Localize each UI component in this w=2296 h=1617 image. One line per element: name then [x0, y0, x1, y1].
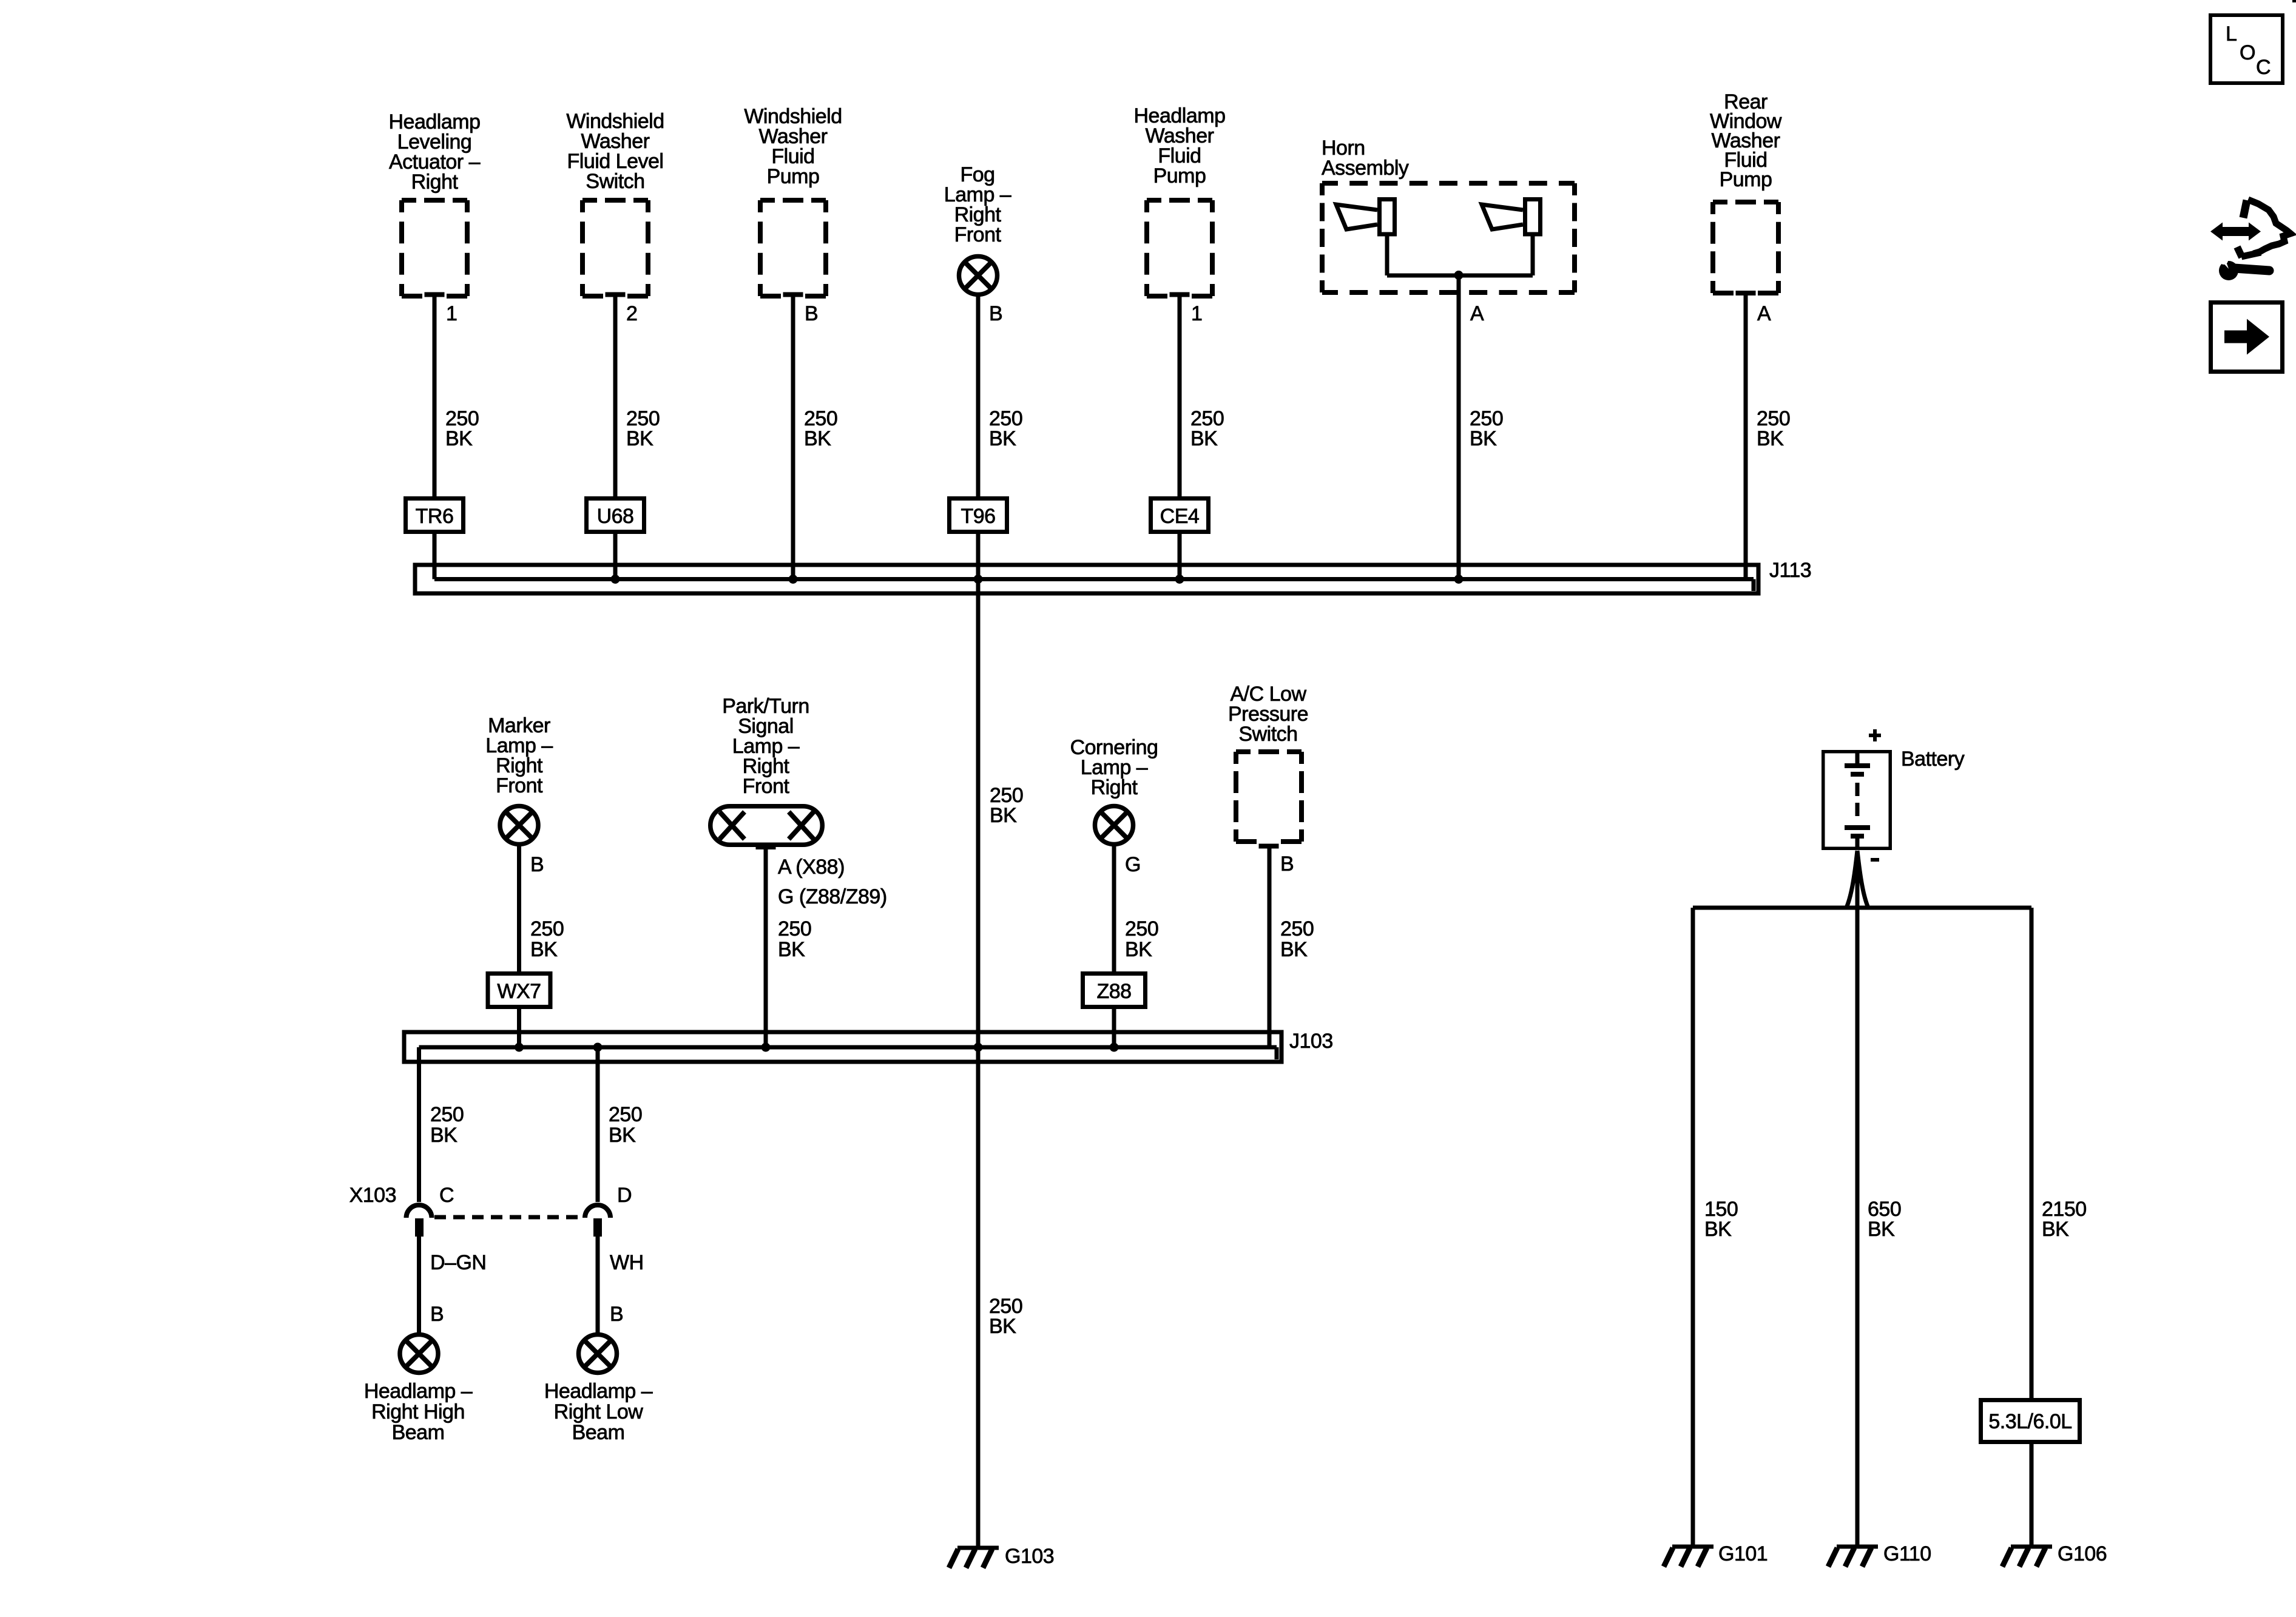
svg-text:Right: Right — [411, 170, 459, 194]
svg-text:J113: J113 — [1769, 559, 1811, 582]
wire from TR6 into splice pack J113 — [433, 534, 437, 579]
svg-text:BK: BK — [778, 938, 805, 961]
wire from right horn to junction — [1459, 236, 1533, 275]
wire label 250 BK — [430, 1103, 464, 1147]
wire label 250 BK on main wire above J103 — [990, 784, 1023, 827]
wire label 250 BK — [609, 1103, 642, 1147]
junction dot J113 - U68 wire — [611, 575, 620, 584]
svg-text:G110: G110 — [1883, 1542, 1931, 1565]
horn symbol right — [1482, 200, 1541, 235]
svg-text:A: A — [1757, 302, 1771, 325]
wire 250 BK from fluid level switch to U68 — [613, 297, 618, 496]
svg-text:D: D — [617, 1184, 632, 1207]
svg-text:Front: Front — [954, 223, 1002, 246]
wire from Z88 to splice pack J103 — [1112, 1009, 1116, 1047]
wire 250 BK from washer fluid pump to J113 — [791, 297, 795, 579]
component Headlamp Leveling Actuator - Right (label + dashed box) — [389, 110, 481, 296]
component Windshield Washer Fluid Level Switch — [566, 110, 664, 296]
svg-text:5.3L/6.0L: 5.3L/6.0L — [1988, 1410, 2071, 1433]
lamp symbol Headlamp - Right Low Beam — [579, 1335, 617, 1373]
ground G110 — [1828, 1547, 1878, 1567]
wire 250 BK from park/turn lamp to J103 — [764, 849, 768, 1047]
junction dot in horn assembly — [1454, 271, 1464, 280]
ground G106 — [2002, 1547, 2052, 1567]
lamp symbol Marker Lamp - Right Front — [500, 806, 538, 845]
svg-text:BK: BK — [1757, 427, 1784, 450]
component A/C Low Pressure Switch — [1228, 683, 1308, 846]
horn assembly dashed enclosure — [1322, 183, 1575, 292]
connector X103 cavity C (socket arc and pin) — [407, 1205, 432, 1237]
svg-text:Pump: Pump — [1153, 164, 1206, 187]
component Fog Lamp - Right Front (label) — [944, 163, 1011, 246]
svg-text:Right High: Right High — [371, 1400, 465, 1423]
svg-text:BK: BK — [530, 938, 558, 961]
svg-text:Pump: Pump — [767, 165, 820, 188]
junction dot J113 - washer pump wire — [789, 575, 798, 584]
svg-text:G106: G106 — [2058, 1542, 2107, 1565]
junction dot J113 - horn wire — [1454, 575, 1464, 584]
svg-text:BK: BK — [989, 1315, 1016, 1338]
lamp symbol Park/Turn Signal Lamp (dual filament) — [711, 806, 823, 847]
svg-text:T96: T96 — [961, 505, 995, 528]
connector WX7 — [488, 974, 550, 1007]
svg-text:BK: BK — [1280, 938, 1308, 961]
svg-text:Beam: Beam — [572, 1421, 625, 1444]
battery negative sign — [1871, 858, 1879, 862]
battery negative fork junction — [1846, 851, 1868, 908]
splice pack J113 enclosure — [415, 565, 1758, 593]
wire label 250 BK — [1280, 917, 1314, 961]
svg-text:BK: BK — [1704, 1218, 1732, 1241]
svg-text:B: B — [610, 1303, 623, 1326]
label Headlamp - Right High Beam — [364, 1380, 473, 1444]
svg-text:G103: G103 — [1005, 1545, 1054, 1568]
svg-text:D–GN: D–GN — [430, 1251, 486, 1274]
connector CE4 — [1151, 499, 1209, 532]
svg-text:G (Z88/Z89): G (Z88/Z89) — [778, 885, 887, 908]
splice pack J103 internal bus wire — [419, 1047, 1277, 1059]
wire WH from X103 D to right low beam headlamp — [596, 1237, 600, 1332]
svg-text:2: 2 — [626, 302, 637, 325]
lamp symbol Fog Lamp - Right Front — [959, 257, 998, 295]
wire label 250 BK — [778, 917, 811, 961]
component Headlamp Washer Fluid Pump — [1134, 104, 1226, 296]
component Cornering Lamp - Right label — [1070, 736, 1158, 799]
svg-text:C: C — [439, 1184, 454, 1207]
svg-text:Right Low: Right Low — [554, 1400, 644, 1423]
connector U68 — [587, 499, 644, 532]
svg-text:BK: BK — [1190, 427, 1218, 450]
wire label 250 BK — [626, 407, 660, 450]
svg-text:Z88: Z88 — [1096, 980, 1131, 1003]
icon adjust/repair (double arrow, panel outline, wrench) — [2210, 200, 2291, 280]
connector T96 — [950, 499, 1007, 532]
battery — [1823, 751, 1891, 849]
svg-text:Pump: Pump — [1720, 168, 1772, 191]
wire 250 BK from fog lamp to T96 — [976, 297, 981, 496]
svg-text:TR6: TR6 — [416, 505, 454, 528]
connector Z88 — [1083, 974, 1146, 1007]
svg-text:BK: BK — [989, 427, 1016, 450]
wire label 250 BK — [1470, 407, 1503, 450]
svg-text:B: B — [530, 853, 544, 876]
junction dot J103 - right headlamp drop — [593, 1043, 603, 1052]
junction dot J103 - WX7 wire — [515, 1043, 524, 1052]
wire 250 BK from marker lamp to WX7 — [517, 846, 521, 971]
junction dot J103 - main wire — [974, 1043, 983, 1052]
svg-text:G101: G101 — [1718, 1542, 1768, 1565]
svg-text:BK: BK — [609, 1124, 636, 1147]
svg-text:J103: J103 — [1289, 1030, 1333, 1053]
wire label 250 BK — [989, 407, 1022, 450]
svg-text:B: B — [1280, 852, 1294, 876]
lamp symbol Cornering Lamp - Right — [1095, 806, 1133, 845]
svg-text:U68: U68 — [597, 505, 634, 528]
wire label 650 BK — [1868, 1198, 1901, 1241]
svg-text:BK: BK — [445, 427, 473, 450]
junction dot J103 - Z88 wire — [1110, 1043, 1119, 1052]
svg-text:Assembly: Assembly — [1322, 157, 1409, 180]
svg-text:Switch: Switch — [1238, 723, 1297, 746]
main wire from T96 down through J113 and J103 to G103 — [976, 534, 981, 1547]
svg-text:1: 1 — [1191, 302, 1202, 325]
svg-text:BK: BK — [1868, 1218, 1895, 1241]
wire 2150 BK to G106 — [2030, 908, 2034, 1547]
svg-text:B: B — [805, 302, 818, 325]
svg-text:250: 250 — [1125, 917, 1158, 940]
svg-text:BK: BK — [626, 427, 653, 450]
wire 250 BK from headlamp leveling actuator to TR6 — [433, 297, 437, 496]
connector TR6 — [406, 499, 464, 532]
component Park/Turn Signal Lamp - Right Front label — [722, 695, 809, 798]
dashed connector tie line X103 — [434, 1215, 584, 1220]
component Rear Window Washer Fluid Pump — [1710, 90, 1782, 293]
wire 250 BK from horn assembly to J113 — [1457, 275, 1461, 579]
svg-text:CE4: CE4 — [1160, 505, 1200, 528]
svg-text:1: 1 — [446, 302, 457, 325]
svg-text:Right: Right — [1091, 776, 1138, 799]
wire 150 BK to G101 — [1691, 908, 1695, 1547]
svg-text:BK: BK — [804, 427, 831, 450]
engine variant box 5.3L/6.0L — [1981, 1400, 2080, 1442]
wire from U68 to splice pack J113 — [613, 534, 618, 579]
svg-text:B: B — [989, 302, 1002, 325]
svg-text:WX7: WX7 — [497, 980, 541, 1003]
svg-text:WH: WH — [610, 1251, 644, 1274]
lamp symbol Headlamp - Right High Beam — [400, 1335, 438, 1373]
svg-text:A (X88): A (X88) — [778, 856, 845, 879]
wire 250 BK from cornering lamp to Z88 — [1112, 846, 1116, 971]
component Windshield Washer Fluid Pump — [744, 105, 842, 296]
svg-text:X103: X103 — [349, 1184, 396, 1207]
svg-text:O: O — [2240, 41, 2255, 64]
svg-text:C: C — [2256, 56, 2271, 79]
svg-text:Headlamp –: Headlamp – — [544, 1380, 653, 1403]
svg-text:BK: BK — [1470, 427, 1497, 450]
splice pack J113 internal bus wire — [434, 579, 1754, 592]
component Horn Assembly label — [1322, 137, 1409, 180]
wire label 250 BK — [1757, 407, 1790, 450]
ground G103 — [949, 1548, 999, 1568]
icon LOC box — [2210, 15, 2283, 83]
wire label 150 BK — [1704, 1198, 1738, 1241]
wire from left horn to junction — [1387, 236, 1459, 275]
junction dot J113 - fog lamp wire — [974, 575, 983, 584]
svg-text:250: 250 — [430, 1103, 464, 1126]
svg-text:Beam: Beam — [392, 1421, 445, 1444]
wire 250 BK from headlamp washer pump to CE4 — [1178, 297, 1182, 496]
svg-text:Switch: Switch — [586, 170, 644, 193]
page corner mark — [2292, 0, 2296, 2]
svg-text:Front: Front — [496, 774, 543, 797]
horn symbol left — [1336, 200, 1395, 235]
ground distribution wire from battery negative — [1693, 906, 2031, 910]
svg-text:Headlamp –: Headlamp – — [364, 1380, 473, 1403]
svg-text:L: L — [2226, 22, 2237, 46]
wire 250 BK from A/C switch to J103 — [1268, 848, 1272, 1047]
svg-text:Front: Front — [743, 775, 790, 798]
wire D-GN from X103 C to right high beam headlamp — [417, 1237, 421, 1332]
svg-text:BK: BK — [990, 804, 1017, 827]
wire label 250 BK — [1190, 407, 1224, 450]
svg-text:250: 250 — [1280, 917, 1314, 940]
svg-text:Battery: Battery — [1901, 748, 1965, 771]
svg-text:A: A — [1470, 302, 1484, 325]
svg-text:250: 250 — [609, 1103, 642, 1126]
wire label 250 BK — [804, 407, 837, 450]
junction dot J113 - CE4 wire — [1175, 575, 1184, 584]
svg-text:BK: BK — [1125, 938, 1152, 961]
wire label 250 BK — [530, 917, 564, 961]
wire label 2150 BK — [2042, 1198, 2087, 1241]
splice pack J103 enclosure — [404, 1032, 1281, 1062]
svg-text:BK: BK — [430, 1124, 458, 1147]
svg-text:250: 250 — [530, 917, 564, 940]
ground G101 — [1664, 1547, 1714, 1567]
wire label 250 BK — [445, 407, 479, 450]
label Headlamp - Right Low Beam — [544, 1380, 653, 1444]
wire 650 BK to G110 — [1855, 851, 1860, 1547]
component Marker Lamp - Right Front label — [485, 714, 553, 797]
connector X103 cavity D (socket arc and pin) — [585, 1205, 610, 1237]
wire 250 BK right drop from J103 to X103 pin D — [596, 1047, 600, 1202]
wire from WX7 to splice pack J103 — [517, 1009, 521, 1047]
svg-text:B: B — [430, 1303, 444, 1326]
battery positive sign — [1869, 729, 1881, 741]
junction dot J103 - park/turn wire — [761, 1043, 771, 1052]
svg-text:250: 250 — [778, 917, 811, 940]
wire from CE4 to splice pack J113 — [1178, 534, 1182, 579]
wire label 250 BK — [1125, 917, 1158, 961]
wire 250 BK left drop from J103 to X103 pin C — [417, 1047, 421, 1202]
wire label 250 BK on main wire above G103 — [989, 1295, 1022, 1338]
svg-text:BK: BK — [2042, 1218, 2069, 1241]
icon forward arrow box — [2211, 303, 2283, 372]
wire 250 BK from rear window washer pump to J113 — [1744, 295, 1748, 579]
svg-text:G: G — [1125, 853, 1141, 876]
